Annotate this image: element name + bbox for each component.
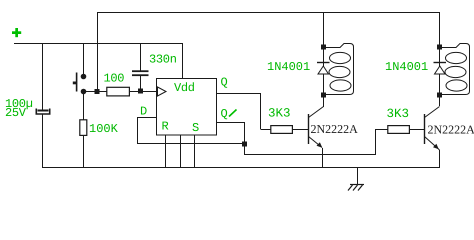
capacitor C2 330n xyxy=(132,70,149,76)
svg-text:100: 100 xyxy=(104,71,125,85)
ground symbol xyxy=(348,185,364,191)
wire D input xyxy=(137,117,245,144)
wire 3K3 R3 to Q1 base xyxy=(292,129,308,131)
wire relay1 to Q1 collector xyxy=(323,95,325,107)
wire pushbutton bottom to 100K xyxy=(83,94,85,120)
wire node to 3K3 R4 xyxy=(245,129,389,155)
svg-text:1N4001: 1N4001 xyxy=(267,60,310,74)
wire S pin to ground xyxy=(194,135,196,168)
node junction relay2 bottom xyxy=(437,93,442,98)
wire top supply rail xyxy=(97,12,440,14)
wire C1 bottom lead xyxy=(42,114,44,168)
wire relay1 branch top xyxy=(323,12,325,47)
wire Q2 emitter to ground xyxy=(439,150,441,168)
wire relay2 branch top xyxy=(439,12,441,47)
node junction relay1 top xyxy=(321,45,326,50)
ground symbol stem xyxy=(357,167,359,184)
label Q-bar slash xyxy=(229,110,237,117)
wire Q1 emitter to ground xyxy=(322,148,324,168)
node junction under C2 xyxy=(138,89,143,94)
wire R pin to ground xyxy=(165,135,167,168)
wire 100K bottom lead xyxy=(83,135,85,168)
svg-text:100K: 100K xyxy=(89,122,119,136)
relay coil K2 xyxy=(440,44,470,95)
resistor 100 horizontal xyxy=(107,87,130,96)
svg-text:R: R xyxy=(162,120,169,134)
svg-text:3K3: 3K3 xyxy=(387,107,410,121)
relay coil K1 xyxy=(324,44,354,95)
diode D2 1N4001 xyxy=(434,63,447,75)
wire C2 bottom lead xyxy=(140,76,142,91)
wire pushbutton node to junction xyxy=(85,91,97,93)
svg-text:Vdd: Vdd xyxy=(174,81,195,95)
wire C1 top lead xyxy=(42,43,44,110)
svg-text:330n: 330n xyxy=(149,52,177,66)
wire 3K3 R4 to Q2 base xyxy=(409,129,425,131)
svg-text:S: S xyxy=(192,121,199,135)
svg-text:2N2222A: 2N2222A xyxy=(428,122,474,136)
svg-text:2N2222A: 2N2222A xyxy=(311,122,359,136)
wire Q output to 3K3 R3 xyxy=(216,93,271,130)
diode D1 1N4001 xyxy=(317,63,330,75)
svg-text:3K3: 3K3 xyxy=(268,107,291,121)
wire relay2 to Q2 collector xyxy=(439,95,441,106)
wire junction to resistor 100 xyxy=(97,91,107,93)
transistor Q1 2N2222A xyxy=(309,107,324,148)
svg-text:1N4001: 1N4001 xyxy=(385,60,428,74)
node junction relay1 bottom xyxy=(321,93,326,98)
node junction Q/ to D xyxy=(242,142,247,147)
node junction clock xyxy=(95,89,100,94)
svg-text:Q: Q xyxy=(221,75,228,89)
wire resistor 100 to clock input xyxy=(129,91,157,93)
resistor 100K vertical xyxy=(80,120,87,136)
transistor Q2 2N2222A xyxy=(425,107,440,151)
wire +V rail xyxy=(14,43,183,45)
svg-text:D: D xyxy=(140,104,147,118)
resistor R3 3K3 xyxy=(271,126,293,134)
wire vertical from top rail to clock node xyxy=(97,12,99,91)
flip-flop U1 box xyxy=(157,79,217,136)
svg-text:25V: 25V xyxy=(5,106,27,120)
wire C2 top lead xyxy=(140,43,142,71)
wire pushbutton top lead xyxy=(83,43,85,74)
wire Vdd lead xyxy=(182,43,184,78)
label + xyxy=(12,28,21,37)
capacitor C1 100u electrolytic xyxy=(36,109,49,115)
wire ground rail xyxy=(43,167,441,169)
flip-flop clock input triangle xyxy=(158,87,167,96)
pushbutton S1 xyxy=(73,73,86,95)
wire relay1 diode section xyxy=(323,47,325,95)
resistor R4 3K3 xyxy=(388,126,410,134)
wire Vss pin to ground xyxy=(180,135,182,168)
wire relay2 diode section xyxy=(439,47,441,95)
node junction relay2 top xyxy=(437,45,442,50)
wire Q/ output down to node xyxy=(216,122,245,144)
svg-text:Q: Q xyxy=(221,107,228,121)
